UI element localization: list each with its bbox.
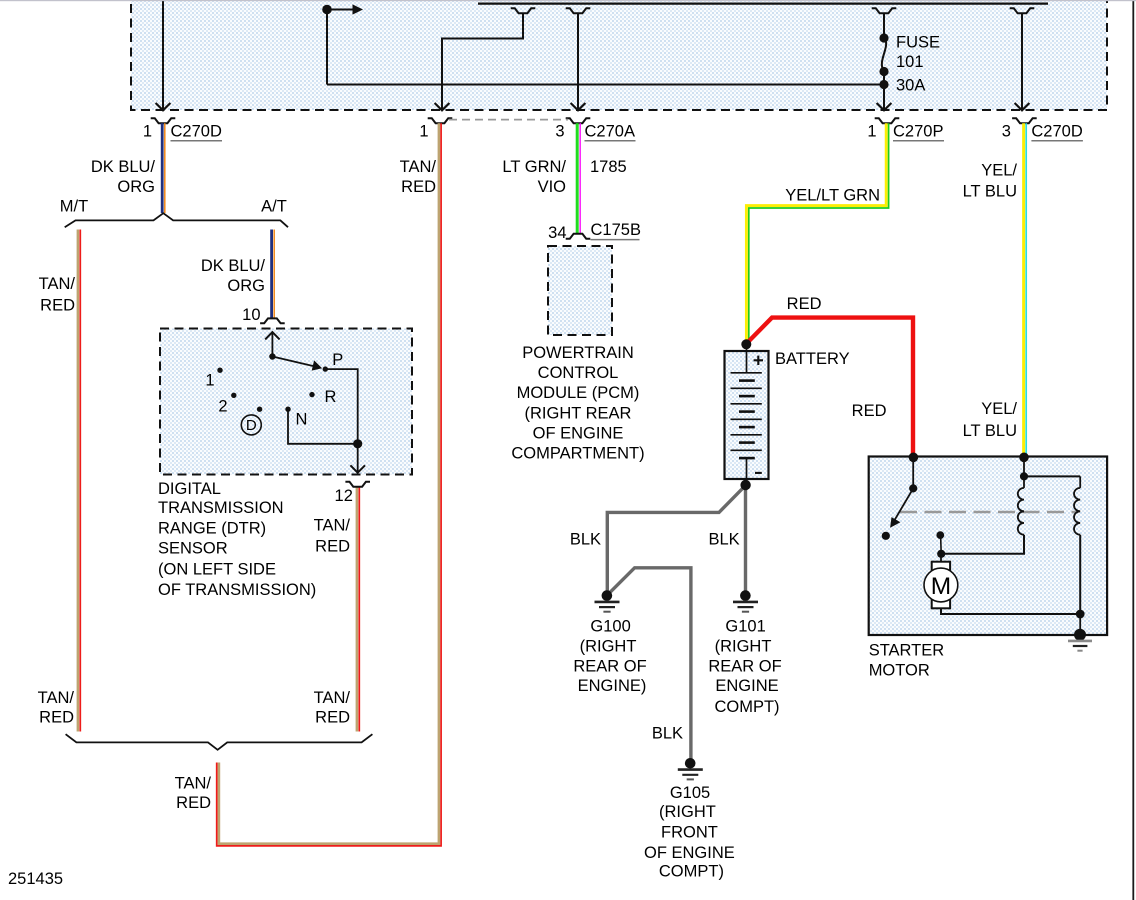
svg-text:DIGITAL: DIGITAL [158, 480, 221, 498]
svg-text:G105: G105 [670, 784, 710, 802]
svg-text:LT BLU: LT BLU [963, 422, 1017, 440]
svg-text:FUSE: FUSE [896, 34, 940, 52]
svg-text:COMPARTMENT): COMPARTMENT) [511, 445, 644, 463]
svg-text:YEL/: YEL/ [981, 162, 1017, 180]
svg-text:LT GRN/: LT GRN/ [502, 158, 566, 176]
svg-text:ORG: ORG [117, 178, 155, 196]
svg-text:G100: G100 [590, 617, 630, 635]
svg-text:DK BLU/: DK BLU/ [91, 158, 156, 176]
svg-text:(ON LEFT SIDE: (ON LEFT SIDE [158, 560, 276, 578]
svg-text:POWERTRAIN: POWERTRAIN [522, 344, 634, 362]
svg-text:12: 12 [335, 487, 353, 505]
svg-text:RED: RED [401, 178, 436, 196]
svg-text:2: 2 [218, 398, 227, 416]
svg-text:CONTROL: CONTROL [538, 364, 619, 382]
svg-text:TAN/: TAN/ [39, 275, 76, 293]
svg-text:BATTERY: BATTERY [775, 350, 850, 368]
svg-text:M/T: M/T [60, 198, 88, 216]
svg-text:YEL/LT GRN: YEL/LT GRN [785, 187, 880, 205]
svg-text:RED: RED [40, 296, 75, 314]
svg-text:C270A: C270A [585, 122, 635, 140]
svg-text:RED: RED [315, 537, 350, 555]
svg-text:TAN/: TAN/ [175, 775, 212, 793]
svg-text:COMPT): COMPT) [659, 863, 724, 881]
svg-text:RED: RED [39, 709, 74, 727]
svg-text:1: 1 [205, 372, 214, 390]
svg-text:YEL/: YEL/ [981, 400, 1017, 418]
svg-text:DK BLU/: DK BLU/ [201, 257, 266, 275]
svg-text:M: M [931, 573, 951, 600]
svg-text:OF ENGINE: OF ENGINE [533, 424, 624, 442]
svg-text:MODULE (PCM): MODULE (PCM) [517, 384, 640, 402]
svg-text:ORG: ORG [227, 277, 265, 295]
svg-text:ENGINE: ENGINE [715, 677, 778, 695]
svg-text:(RIGHT REAR: (RIGHT REAR [525, 404, 632, 422]
svg-text:TAN/: TAN/ [38, 689, 75, 707]
svg-text:REAR OF: REAR OF [573, 658, 646, 676]
svg-text:(RIGHT: (RIGHT [659, 803, 716, 821]
svg-text:RED: RED [852, 402, 887, 420]
svg-text:3: 3 [1002, 122, 1011, 140]
svg-text:OF TRANSMISSION): OF TRANSMISSION) [158, 581, 316, 599]
svg-text:BLK: BLK [652, 725, 683, 743]
svg-text:101: 101 [896, 53, 924, 71]
svg-text:34: 34 [548, 224, 566, 242]
svg-text:OF ENGINE: OF ENGINE [644, 844, 735, 862]
svg-text:251435: 251435 [8, 870, 63, 888]
svg-text:SENSOR: SENSOR [158, 539, 228, 557]
svg-text:30A: 30A [896, 77, 925, 95]
svg-text:C270D: C270D [1031, 122, 1082, 140]
svg-text:BLK: BLK [709, 530, 740, 548]
svg-text:(RIGHT: (RIGHT [580, 637, 637, 655]
svg-text:1: 1 [419, 122, 428, 140]
svg-text:RED: RED [176, 794, 211, 812]
svg-text:STARTER: STARTER [869, 641, 945, 659]
svg-text:C175B: C175B [591, 221, 641, 239]
svg-text:G101: G101 [725, 617, 765, 635]
svg-text:10: 10 [242, 306, 260, 324]
svg-text:REAR OF: REAR OF [708, 658, 781, 676]
svg-text:TAN/: TAN/ [314, 516, 351, 534]
svg-text:1: 1 [143, 122, 152, 140]
svg-text:TAN/: TAN/ [400, 158, 437, 176]
svg-text:P: P [332, 351, 343, 369]
svg-text:VIO: VIO [538, 178, 567, 196]
svg-text:COMPT): COMPT) [714, 698, 779, 716]
svg-text:ENGINE): ENGINE) [578, 677, 647, 695]
svg-text:BLK: BLK [570, 530, 601, 548]
svg-text:FRONT: FRONT [661, 823, 718, 841]
svg-text:RANGE (DTR): RANGE (DTR) [158, 519, 266, 537]
svg-text:TAN/: TAN/ [314, 689, 351, 707]
svg-text:R: R [325, 388, 337, 406]
svg-text:(RIGHT: (RIGHT [715, 637, 772, 655]
svg-text:A/T: A/T [261, 198, 287, 216]
svg-text:LT BLU: LT BLU [963, 182, 1017, 200]
svg-text:TRANSMISSION: TRANSMISSION [158, 499, 284, 517]
svg-text:C270P: C270P [893, 122, 943, 140]
svg-text:C270D: C270D [171, 122, 222, 140]
svg-text:1: 1 [867, 122, 876, 140]
svg-text:D: D [246, 417, 257, 434]
svg-text:3: 3 [555, 122, 564, 140]
svg-text:MOTOR: MOTOR [869, 662, 930, 680]
svg-text:RED: RED [315, 709, 350, 727]
svg-text:RED: RED [787, 295, 822, 313]
svg-text:1785: 1785 [590, 158, 627, 176]
svg-text:N: N [296, 410, 308, 428]
